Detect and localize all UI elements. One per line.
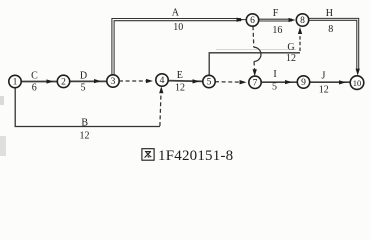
wire: dashed dummy 6-7 lower part	[253, 62, 256, 71]
svg-text:3: 3	[111, 77, 116, 87]
wire: ghost of G line	[216, 49, 296, 51]
svg-text:12: 12	[175, 82, 185, 93]
svg-text:10: 10	[353, 78, 362, 88]
svg-text:10: 10	[173, 22, 183, 33]
svg-text:7: 7	[253, 79, 258, 89]
wire: dashed vertical of G into node 8	[299, 33, 301, 51]
svg-text:8: 8	[300, 16, 305, 26]
arrowhead H down into 10	[356, 69, 360, 76]
wire: dashed dummy 5-7	[215, 81, 240, 83]
svg-text:6: 6	[32, 83, 37, 94]
node 9	[297, 76, 309, 88]
svg-text:8: 8	[328, 24, 333, 35]
svg-text:C: C	[31, 70, 38, 81]
svg-text:E: E	[177, 70, 183, 81]
svg-text:F: F	[273, 8, 279, 19]
wire: activity D line 2-3	[69, 80, 106, 82]
svg-text:2: 2	[61, 78, 66, 88]
arrowhead E into 5	[193, 79, 200, 83]
arrowhead dummy 3-4 into 4	[146, 79, 153, 83]
wire: activity H polyline 8 right and down to 10 (double scan line)	[308, 18, 358, 70]
arrowhead A into 6	[237, 18, 244, 22]
arrowhead G up into 8	[298, 27, 302, 34]
node 5	[203, 75, 215, 87]
svg-text:A: A	[172, 8, 180, 19]
wire: activity G solid part 5 up then right	[209, 53, 300, 76]
wire: dashed vertical of B into node 4	[160, 93, 161, 127]
svg-text:B: B	[81, 117, 88, 128]
node 6	[246, 14, 258, 26]
node 10	[350, 76, 364, 90]
node 3	[107, 75, 119, 87]
node 4	[156, 74, 168, 86]
svg-text:G: G	[287, 42, 294, 53]
svg-text:5: 5	[272, 82, 277, 93]
svg-text:6: 6	[250, 16, 255, 26]
scan artifact left edge	[0, 96, 4, 105]
arrowhead dummy 6-7 down into 7	[253, 69, 257, 76]
svg-text:1F420151-8: 1F420151-8	[158, 148, 233, 164]
node 8	[296, 14, 308, 26]
node 2	[57, 75, 69, 87]
svg-text:I: I	[273, 69, 276, 80]
svg-text:5: 5	[207, 78, 212, 88]
arrowhead dummy 5-7 into 7	[240, 80, 247, 84]
svg-text:1: 1	[13, 78, 18, 88]
wire: activity A polyline 3 up and right to 6 (double scan line)	[112, 19, 241, 76]
wire: activity J line 9-10	[310, 81, 351, 83]
wire: dashed dummy 6-7 upper part	[252, 26, 255, 47]
arrowhead C into 2	[47, 79, 54, 83]
wire: activity C line 1-2	[21, 81, 57, 83]
svg-text:H: H	[326, 8, 333, 19]
arrowhead F into 8	[289, 18, 296, 22]
wire: activity B solid part 1 down then right	[15, 88, 160, 127]
wire: activity I line 7-9	[261, 81, 297, 83]
svg-text:4: 4	[160, 76, 165, 86]
arrowhead B dashed up into 4	[159, 86, 163, 93]
svg-text:5: 5	[81, 83, 86, 94]
wire: activity F line 6-8 (double scan line)	[258, 18, 292, 20]
svg-text:12: 12	[319, 85, 329, 96]
arrowhead I into 9	[285, 80, 292, 84]
node 7	[249, 76, 261, 88]
arrowhead D into 3	[94, 79, 101, 83]
svg-text:16: 16	[272, 25, 282, 36]
svg-text:D: D	[80, 70, 87, 81]
svg-text:9: 9	[301, 78, 306, 88]
svg-text:12: 12	[286, 53, 296, 64]
wire: activity E line 4-5	[168, 80, 203, 83]
node 1	[9, 75, 21, 87]
wire: dashed dummy 3-4	[119, 80, 147, 82]
wire: hop arc of dummy 6-7 over G line	[254, 47, 261, 61]
svg-text:J: J	[321, 71, 325, 82]
svg-text:12: 12	[80, 131, 90, 142]
caption hanzi 图 drawn as strokes	[142, 149, 154, 161]
arrowhead J into 10	[339, 80, 346, 84]
